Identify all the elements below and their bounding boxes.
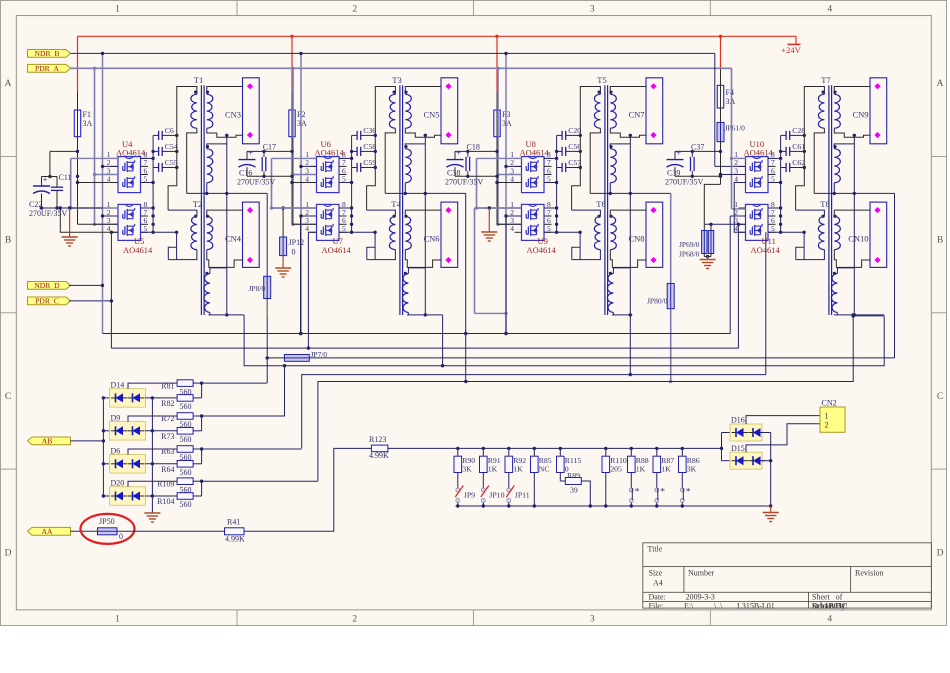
svg-text:4: 4	[827, 615, 832, 625]
wire D16 tap to CN2 pin1	[746, 416, 820, 424]
wire mid vertical	[424, 135, 426, 315]
svg-text:AA: AA	[42, 527, 53, 536]
op-amp U4 AO4614 dual MOSFET upper	[118, 157, 141, 193]
wire mid vertical	[853, 135, 855, 315]
svg-text:F4: F4	[726, 88, 734, 97]
wire R72 net to H3	[202, 366, 285, 416]
resistor R110	[604, 447, 607, 450]
wire T1 to CN3 pin1	[207, 87, 243, 95]
svg-text:CN9: CN9	[852, 110, 868, 120]
ground below C22	[69, 208, 71, 237]
op-amp U7 AO4614 dual MOSFET lower	[317, 204, 340, 240]
svg-text:1: 1	[115, 615, 120, 625]
ground below JP12	[282, 256, 284, 268]
svg-text:0: 0	[119, 532, 123, 541]
wire cap stack join	[780, 135, 782, 232]
resistor R87	[655, 447, 658, 450]
transformer T2 third winding	[204, 274, 210, 313]
svg-text:C57: C57	[568, 158, 581, 167]
wire U7 pin4 drop to L2	[308, 232, 316, 348]
svg-text:JP50: JP50	[99, 517, 115, 526]
jumper JP11	[507, 488, 511, 492]
svg-text:+: +	[248, 148, 253, 158]
highlight ellipse around JP50	[81, 514, 135, 544]
fuse F3	[496, 110, 498, 137]
svg-text:NDR D: NDR D	[34, 281, 60, 290]
capacitor C6	[158, 131, 160, 140]
svg-text:NDR B: NDR B	[35, 49, 60, 58]
svg-text:R41: R41	[227, 517, 240, 526]
svg-text:C16: C16	[239, 169, 252, 178]
ground below diode array	[144, 512, 160, 514]
jumper JP61/0	[720, 108, 722, 122]
fuse F2	[291, 110, 293, 137]
svg-text:C54: C54	[165, 142, 178, 151]
svg-text:5: 5	[342, 174, 346, 183]
svg-text:C: C	[937, 392, 943, 402]
wire U bottom pin5 row	[544, 231, 580, 233]
resistor R90	[456, 447, 459, 450]
wire U11 pin3 row	[704, 223, 745, 225]
svg-text:Date:: Date:	[649, 593, 666, 602]
wire U top pin5 to U bottom pin8	[141, 182, 154, 184]
wire fuse node ch3	[496, 137, 498, 225]
svg-text:Title: Title	[648, 545, 663, 554]
wire U top pin5 to U bottom pin8	[768, 182, 781, 184]
net label AA	[28, 527, 71, 535]
svg-text:3A: 3A	[726, 97, 736, 106]
svg-text:R73: R73	[161, 432, 174, 441]
wire T1 to CN3 pin2 step	[207, 128, 243, 137]
wire T6 to CN8 pin2 step	[610, 250, 646, 268]
svg-text:R123: R123	[369, 435, 386, 444]
wire PDR feed ch4	[731, 68, 733, 209]
svg-text:T5: T5	[597, 75, 606, 85]
capacitor C11	[51, 186, 63, 188]
svg-text:R109: R109	[157, 479, 174, 488]
svg-text:B: B	[937, 236, 943, 246]
svg-text:+: +	[456, 148, 461, 158]
svg-text:5: 5	[144, 174, 148, 183]
svg-text:D9: D9	[111, 413, 121, 422]
ground ch3 rail	[475, 207, 522, 209]
wire AA to R41	[117, 530, 225, 532]
wire bus H4	[244, 315, 884, 366]
wire ch2 rail end drop	[465, 193, 467, 381]
fuse F4	[720, 85, 722, 108]
resistor R81	[128, 383, 177, 389]
wire T4 to CN6 pin2 step	[405, 250, 441, 268]
svg-text:560: 560	[180, 500, 192, 509]
svg-text:CN8: CN8	[628, 234, 644, 244]
capacitor C17	[261, 157, 263, 171]
svg-text:R72: R72	[161, 414, 174, 423]
svg-text:4.99K: 4.99K	[225, 534, 245, 543]
resistor R64	[177, 461, 193, 468]
svg-text:1K: 1K	[661, 465, 671, 474]
svg-text:AO4614: AO4614	[520, 148, 550, 158]
jumper pads	[629, 488, 633, 492]
svg-text:JP9: JP9	[464, 490, 475, 499]
wire R81 net to JP7	[202, 382, 268, 384]
connector CN9	[870, 78, 887, 144]
wire T8 to CN10 pin1	[834, 210, 870, 216]
wire NDR feed ch4	[714, 53, 716, 166]
svg-text:Number: Number	[688, 569, 715, 578]
wire U5 pin4 to rail	[60, 208, 118, 232]
svg-text:CN4: CN4	[225, 234, 242, 244]
svg-text:270UF/35V: 270UF/35V	[29, 209, 67, 218]
wire rail under upper transformer	[187, 192, 268, 194]
svg-text:4: 4	[827, 5, 832, 15]
connector CN7	[646, 78, 663, 144]
svg-text:+24V: +24V	[781, 45, 801, 55]
svg-text:C28: C28	[792, 126, 805, 135]
svg-text:3K: 3K	[687, 465, 697, 474]
svg-text:4.99K: 4.99K	[369, 451, 389, 460]
connector CN2	[820, 407, 845, 432]
svg-text:D: D	[5, 549, 12, 559]
wire U bottom pin5 row	[141, 231, 177, 233]
wire U top pin5 to U bottom pin8	[544, 182, 557, 184]
wire T6 to CN8 pin1	[610, 210, 646, 216]
ground below JP69/68	[707, 257, 709, 260]
svg-text:F1: F1	[83, 110, 91, 119]
wire cap stack join	[351, 135, 353, 232]
svg-text:D20: D20	[111, 479, 125, 488]
diode D16 dual	[722, 432, 731, 434]
svg-text:R82: R82	[161, 399, 174, 408]
svg-text:270UF/35V: 270UF/35V	[237, 177, 275, 186]
diode D15 dual	[722, 460, 731, 462]
svg-text:A: A	[5, 79, 12, 89]
svg-text:T3: T3	[392, 75, 401, 85]
wire ch3 pin2 drop	[505, 216, 507, 334]
svg-text:2: 2	[825, 420, 829, 429]
capacitor C18	[465, 157, 467, 171]
wire T7 to CN9 pin1	[834, 87, 870, 95]
svg-text:D: D	[937, 549, 944, 559]
wire R109 net to H6	[202, 480, 318, 482]
wire R85 down	[533, 488, 535, 506]
wire rail under upper transformer	[590, 192, 671, 194]
capacitor C54	[158, 147, 160, 156]
wire T7 to CN9 pin2 step	[834, 128, 870, 137]
diode D6 dual	[102, 462, 105, 465]
svg-text:JP69/0: JP69/0	[679, 240, 700, 249]
connector CN8	[646, 202, 663, 267]
wire U10 pin4 to U11 pin4	[734, 183, 745, 233]
svg-text:5: 5	[771, 224, 775, 233]
wire ch3 gray down	[474, 208, 476, 313]
diode D20 dual	[102, 494, 105, 497]
svg-text:AO4614: AO4614	[744, 148, 774, 158]
svg-text:3K: 3K	[462, 465, 472, 474]
wire cap stack join	[152, 135, 154, 232]
capacitor C56	[561, 147, 563, 156]
resistor R86	[681, 447, 684, 450]
wire diode cathode column to ground	[151, 398, 153, 513]
svg-text:E:\: E:\	[684, 601, 694, 610]
wire resistor pair join	[193, 463, 202, 465]
jumper JP50	[98, 528, 118, 535]
capacitor C62	[785, 163, 787, 172]
svg-text:JP10: JP10	[489, 490, 504, 499]
svg-text:C61: C61	[792, 142, 805, 151]
svg-text:2009-3-3: 2009-3-3	[686, 593, 715, 602]
svg-text:5: 5	[771, 174, 775, 183]
wire rail under lower transformer	[834, 314, 884, 316]
svg-text:C36: C36	[363, 126, 376, 135]
svg-text:Size: Size	[649, 569, 663, 578]
jumper JP7/0	[284, 355, 309, 362]
transformer T8 third winding	[831, 274, 837, 313]
svg-text:JP7/0: JP7/0	[311, 350, 328, 359]
wire C22 rail	[39, 207, 103, 209]
wire resistor pair join	[193, 397, 202, 399]
jumper JP10	[481, 488, 485, 492]
svg-text:0: 0	[292, 248, 296, 257]
resistor R115	[559, 447, 562, 450]
svg-text:3A: 3A	[297, 119, 307, 128]
svg-text:4: 4	[510, 174, 514, 183]
svg-text:D15: D15	[731, 444, 745, 453]
resistor R123	[371, 445, 388, 452]
connector CN10	[870, 202, 887, 267]
svg-text:NC: NC	[539, 465, 550, 474]
svg-text:D6: D6	[111, 446, 121, 455]
capacitor C20	[561, 131, 563, 140]
net label AB	[28, 437, 71, 445]
svg-text:1K: 1K	[636, 465, 646, 474]
svg-text:PDR C: PDR C	[35, 297, 59, 306]
wire ch2 rail drop	[442, 315, 444, 366]
svg-text:*: *	[635, 488, 640, 498]
svg-text:+: +	[42, 175, 47, 185]
svg-text:39: 39	[570, 486, 578, 495]
resistor R85	[533, 447, 536, 450]
wire mid vertical	[629, 135, 631, 374]
svg-text:205: 205	[610, 465, 622, 474]
capacitor C37	[690, 157, 692, 171]
connector CN4	[243, 202, 260, 267]
wire gray source rail ch3	[476, 158, 478, 208]
svg-text:D14: D14	[111, 380, 125, 389]
wire bus JP7 line	[267, 357, 284, 359]
svg-text:C6: C6	[165, 126, 174, 135]
op-amp U10 AO4614 dual MOSFET upper	[746, 157, 769, 193]
svg-text:B: B	[5, 236, 11, 246]
svg-text:3: 3	[590, 615, 595, 625]
wire mid vertical	[226, 135, 228, 315]
wire AB	[71, 440, 104, 442]
svg-text:1: 1	[825, 411, 829, 420]
svg-text:2: 2	[352, 5, 357, 15]
svg-text:1K: 1K	[513, 465, 523, 474]
svg-text:T4: T4	[391, 199, 401, 209]
wire R89 to rail	[581, 481, 590, 506]
wire T5 to CN7 pin1	[610, 87, 646, 95]
svg-text:JP61/0: JP61/0	[725, 124, 746, 133]
capacitor C16 electrolytic	[247, 150, 292, 152]
op-amp U9 AO4614 dual MOSFET lower	[522, 204, 545, 240]
svg-text:C38: C38	[447, 169, 460, 178]
wire bus L1 NDR_D	[103, 216, 731, 334]
wire R41 to R123	[244, 448, 371, 531]
capacitor C38 electrolytic	[455, 150, 497, 152]
svg-text:*: *	[660, 488, 665, 498]
wire T2 to CN4 pin1	[207, 210, 243, 216]
wire PDR_A bus	[71, 67, 732, 69]
svg-text:560: 560	[180, 435, 192, 444]
wire PDR feed ch1	[94, 68, 96, 224]
wire AA	[71, 530, 98, 532]
wire NDR feed ch1	[102, 53, 104, 333]
net label NDR_B	[28, 50, 71, 58]
resistor R89	[560, 480, 565, 482]
op-amp U11 AO4614 dual MOSFET lower	[746, 204, 769, 240]
wire resistor pair join	[193, 430, 202, 432]
svg-text:C11: C11	[59, 173, 72, 182]
svg-text:\..\: \..\	[714, 601, 723, 610]
svg-text:Sheet of: Sheet of	[812, 593, 843, 602]
transformer T6 third winding	[607, 274, 613, 313]
svg-text:PDR A: PDR A	[35, 64, 60, 73]
wire U bottom pin5 row	[768, 231, 804, 233]
svg-text:1: 1	[115, 5, 120, 15]
svg-text:File:: File:	[649, 601, 664, 610]
svg-text:AO4614: AO4614	[315, 148, 345, 158]
svg-text:4: 4	[305, 174, 309, 183]
svg-text:3A: 3A	[83, 119, 93, 128]
wire +24V red bus	[78, 35, 797, 37]
wire bus to D16/D15	[720, 447, 723, 450]
capacitor C59	[356, 163, 358, 172]
connector CN5	[441, 78, 458, 144]
capacitor C39 electrolytic	[675, 150, 721, 152]
net label NDR_D	[28, 282, 71, 290]
net label PDR_C	[28, 297, 71, 305]
wire rail under upper transformer	[814, 192, 895, 194]
wire bus H5	[302, 232, 766, 448]
wire R110 down	[605, 488, 607, 507]
resistor R41	[225, 528, 245, 535]
wire bottom rail	[456, 505, 771, 507]
svg-text:T8: T8	[820, 199, 829, 209]
ground below D15	[770, 506, 772, 513]
svg-text:C39: C39	[667, 169, 680, 178]
wire resistor pair join	[193, 495, 202, 497]
wire fuse node ch4	[720, 142, 722, 185]
svg-text:CN2: CN2	[822, 399, 837, 408]
svg-text:C56: C56	[568, 142, 581, 151]
fuse F1	[77, 110, 79, 137]
jumper pads	[655, 488, 659, 492]
svg-text:270UF/35V: 270UF/35V	[445, 177, 483, 186]
svg-text:AO4614: AO4614	[527, 245, 557, 255]
svg-text:R64: R64	[161, 465, 174, 474]
connector CN6	[441, 202, 458, 267]
svg-text:A4: A4	[653, 579, 663, 588]
wire T2 to CN4 pin2 step	[207, 250, 243, 268]
wire rail under lower transformer	[208, 314, 244, 316]
svg-text:3: 3	[590, 5, 595, 15]
wire bus H6	[318, 316, 853, 481]
wire U5 pin4 to PDR_C/L2	[110, 232, 112, 348]
connector CN3	[243, 78, 260, 144]
resistor R109	[128, 481, 177, 487]
wire PDR feed ch3	[497, 68, 499, 224]
svg-text:CN3: CN3	[225, 110, 241, 120]
wire D15 tap to CN2 pin2	[746, 424, 820, 452]
wire NDR_D	[69, 284, 103, 286]
svg-text:CN10: CN10	[848, 234, 868, 244]
resistor R82	[177, 395, 193, 402]
svg-text:Revision: Revision	[855, 569, 883, 578]
svg-text:C59: C59	[363, 158, 376, 167]
svg-text:R81: R81	[161, 381, 174, 390]
capacitor C57	[561, 163, 563, 172]
svg-text:R104: R104	[157, 497, 174, 506]
diode D9 dual	[102, 429, 105, 432]
svg-text:AO4614: AO4614	[116, 148, 146, 158]
wire NDR feed ch2	[300, 53, 302, 333]
svg-text:JP80/0: JP80/0	[647, 297, 668, 306]
svg-text:CN7: CN7	[628, 110, 644, 120]
wire R63 net to H5	[202, 448, 302, 450]
svg-text:R63: R63	[161, 447, 174, 456]
svg-text:CN6: CN6	[423, 234, 439, 244]
jumper JP9	[456, 488, 460, 492]
capacitor C55	[158, 163, 160, 172]
resistor R63	[128, 449, 177, 455]
svg-text:AB: AB	[42, 437, 53, 446]
svg-text:560: 560	[180, 468, 192, 477]
svg-text:JP68/0: JP68/0	[679, 250, 700, 259]
svg-text:Sch1B03C: Sch1B03C	[812, 601, 848, 610]
jumper JP80/0 gray column	[670, 193, 672, 283]
wire PDR_C	[69, 300, 112, 302]
wire T3 to CN5 pin2 step	[405, 128, 441, 137]
power +24V	[795, 36, 797, 44]
wire T8 to CN10 pin2 step	[834, 250, 870, 268]
wire fuse node ch2	[291, 137, 293, 225]
wire R123 bus	[388, 447, 722, 449]
op-amp U5 AO4614 dual MOSFET lower	[118, 204, 141, 240]
capacitor C28	[785, 131, 787, 140]
svg-text:2: 2	[352, 615, 357, 625]
svg-text:*: *	[686, 488, 691, 498]
wire gray source rail ch2	[271, 158, 273, 208]
capacitor C22 electrolytic	[50, 150, 78, 152]
svg-text:CN5: CN5	[423, 110, 439, 120]
svg-text:270UF/35V: 270UF/35V	[665, 177, 703, 186]
svg-text:5: 5	[144, 224, 148, 233]
svg-text:T7: T7	[821, 75, 830, 85]
wire D16/D15 cathodes to ground	[762, 432, 771, 434]
wire rail under lower transformer	[407, 314, 443, 316]
svg-text:T1: T1	[194, 75, 203, 85]
jumper JP8/0 ch1	[266, 193, 268, 276]
wire PDR feed ch2	[292, 68, 294, 224]
wire T4 to CN6 pin1	[405, 210, 441, 216]
op-amp U6 AO4614 dual MOSFET upper	[317, 157, 340, 193]
wire diode anode column	[102, 398, 104, 496]
svg-text:AO4614: AO4614	[123, 245, 153, 255]
capacitor C36	[356, 131, 358, 140]
svg-text:C55: C55	[165, 158, 178, 167]
wire ch2 gray rail extension	[272, 207, 317, 209]
